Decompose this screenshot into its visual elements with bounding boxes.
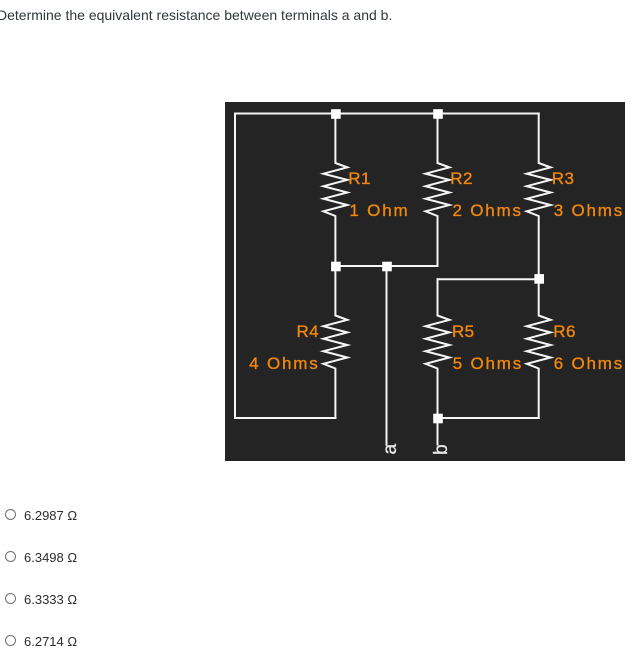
wire terminal a vertical	[386, 266, 388, 445]
resistor R3	[527, 114, 551, 280]
node junction R1 top	[331, 109, 341, 119]
wire left vertical	[234, 114, 236, 419]
wire middle node c	[335, 265, 437, 267]
svg-text:R4: R4	[296, 322, 319, 341]
svg-text:R1: R1	[348, 169, 371, 188]
svg-text:1 Ohm: 1 Ohm	[349, 201, 409, 220]
resistor R4	[323, 266, 347, 418]
option 2	[0, 551, 300, 571]
svg-text:R6: R6	[553, 322, 576, 341]
option 3	[0, 593, 300, 613]
svg-text:4 Ohms: 4 Ohms	[249, 354, 319, 373]
question title	[0, 7, 392, 23]
svg-text:a: a	[380, 444, 401, 455]
option 1	[0, 509, 300, 529]
resistor R6	[527, 279, 551, 418]
circuit panel	[225, 102, 625, 461]
resistor R1	[323, 114, 347, 267]
node junction b R5 bottom	[433, 414, 443, 424]
wire bottom-left horizontal	[235, 417, 335, 419]
svg-text:b: b	[431, 444, 452, 455]
node junction a	[382, 262, 392, 272]
svg-text:6 Ohms: 6 Ohms	[554, 354, 624, 373]
node junction d R3 bottom	[534, 274, 544, 284]
wire bottom-right horizontal	[438, 417, 539, 419]
wire top horizontal	[235, 113, 539, 115]
resistor R2	[426, 114, 450, 267]
wire terminal b vertical	[437, 418, 439, 445]
node junction R2 top	[433, 109, 443, 119]
svg-text:R3: R3	[552, 169, 575, 188]
svg-text:R5: R5	[452, 322, 475, 341]
node junction R1 bottom	[331, 262, 341, 272]
resistor R5	[426, 279, 450, 418]
svg-text:R2: R2	[450, 169, 473, 188]
option 4	[0, 635, 300, 655]
svg-text:5 Ohms: 5 Ohms	[453, 354, 523, 373]
svg-text:3 Ohms: 3 Ohms	[554, 201, 624, 220]
svg-text:2 Ohms: 2 Ohms	[453, 201, 523, 220]
wire middle node d	[438, 278, 539, 280]
